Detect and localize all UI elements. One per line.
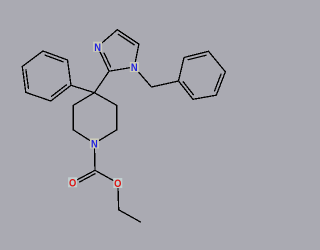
bond phenyl-Cq	[71, 85, 94, 92]
N-benzyl CH2	[138, 71, 179, 87]
N atom imidazole N1	[130, 62, 139, 72]
svg-text:N: N	[94, 42, 101, 54]
svg-text:O: O	[114, 178, 121, 190]
svg-text:O: O	[69, 178, 76, 190]
N atom imidazole N3	[93, 42, 102, 52]
imidazole ring	[100, 30, 139, 71]
svg-text:N: N	[131, 62, 138, 74]
carbamate group	[77, 148, 141, 222]
benzene ring (4-phenyl)	[22, 51, 71, 101]
N atom piperidine	[90, 138, 99, 148]
piperidine ring	[73, 93, 117, 141]
bond imidazole C2 - Cq	[94, 71, 109, 93]
svg-text:N: N	[91, 139, 98, 151]
O atom ester	[113, 178, 122, 188]
O atom carbonyl	[68, 177, 77, 187]
benzyl benzene ring	[179, 51, 226, 99]
